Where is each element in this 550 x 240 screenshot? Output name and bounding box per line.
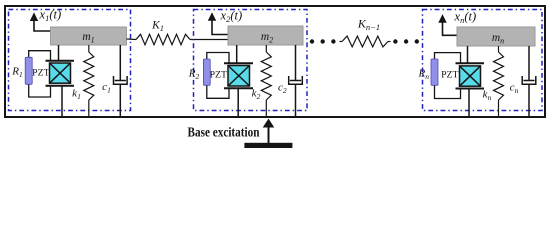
svg-text:k2: k2 (252, 88, 261, 102)
resistor R_1 (shunt load) (25, 57, 32, 84)
displacement arrow x_n(t) (438, 14, 457, 35)
svg-text:x1(t): x1(t) (39, 8, 62, 24)
svg-text:R1: R1 (11, 66, 22, 80)
wire: mass to PZT top electrode (467, 46, 469, 63)
dash-dot unit boundary box (oscillator 2) (194, 10, 308, 111)
damper c_n (dashpot) (522, 46, 536, 117)
PZT bottom electrode plate (224, 87, 253, 89)
wire: shunt loop, bottom electrode to resistor R_2 (207, 85, 229, 98)
resistor R_n (shunt load) (431, 59, 438, 85)
PZT bottom electrode plate (456, 88, 485, 90)
wire: shunt loop, bottom electrode to resistor R_1 (29, 84, 51, 97)
svg-text:R2: R2 (188, 68, 200, 82)
wire: PZT bottom electrode to base (61, 86, 63, 117)
mass block m_2 (228, 26, 303, 45)
svg-text:PZT: PZT (210, 70, 227, 81)
svg-text:cn: cn (510, 81, 519, 95)
svg-text:K1: K1 (151, 20, 164, 34)
wire: PZT bottom electrode to base (237, 88, 239, 116)
damper c_1 (dashpot) (114, 45, 128, 117)
coupling spring K_(n-1) (340, 36, 391, 47)
mass block m_n (457, 27, 535, 46)
spring k_2 (261, 45, 271, 117)
displacement arrow x_1(t) (30, 12, 51, 31)
svg-text:c1: c1 (102, 81, 111, 95)
wire: shunt loop, bottom electrode to resistor R_n (435, 85, 461, 98)
wire: shunt loop, top electrode to resistor R_n (435, 53, 461, 64)
dash-dot unit boundary box (oscillator 1) (9, 10, 131, 111)
outer frame / vibrating base enclosure (5, 6, 545, 117)
svg-text:c2: c2 (278, 82, 287, 96)
ellipsis dots (chain continuation, left group) (310, 39, 336, 43)
PZT top electrode plate (46, 60, 75, 62)
PZT transducer element (crossed box, unit 2) (228, 66, 250, 87)
svg-text:Rn: Rn (417, 68, 429, 82)
coupling spring K1 between m1 and m2 (127, 34, 229, 44)
spring k_n (494, 46, 504, 117)
svg-text:Base excitation: Base excitation (188, 124, 260, 139)
svg-text:k1: k1 (72, 88, 81, 102)
svg-text:kn: kn (483, 89, 492, 103)
base excitation source bar (244, 143, 292, 148)
wire: mass to PZT top electrode (58, 45, 60, 61)
displacement arrow x_2(t) (208, 12, 228, 34)
wire: PZT bottom electrode to base (468, 89, 470, 117)
PZT top electrode plate (224, 62, 253, 64)
ellipsis dots (chain continuation, right group) (393, 39, 419, 43)
resistor R_2 (shunt load) (203, 59, 210, 85)
damper c_2 (dashpot) (289, 45, 303, 117)
PZT transducer element (crossed box, unit n) (460, 66, 481, 86)
spring k_1 (84, 45, 94, 117)
base excitation arrow (263, 119, 275, 144)
PZT top electrode plate (456, 62, 485, 64)
svg-text:PZT: PZT (441, 70, 458, 81)
wire: mass to PZT top electrode (236, 45, 238, 63)
svg-text:xn(t): xn(t) (454, 10, 477, 26)
PZT bottom electrode plate (46, 85, 75, 87)
wire: shunt loop, top electrode to resistor R_2 (207, 53, 229, 64)
svg-text:PZT: PZT (32, 68, 49, 79)
mass block m_1 (51, 27, 127, 45)
svg-text:Kn−1: Kn−1 (357, 17, 380, 33)
dash-dot unit boundary box (oscillator n) (423, 10, 543, 111)
PZT transducer element (crossed box, unit 1) (50, 63, 71, 83)
svg-text:x2(t): x2(t) (220, 9, 243, 25)
wire: shunt loop, top electrode to resistor R_1 (29, 51, 51, 61)
